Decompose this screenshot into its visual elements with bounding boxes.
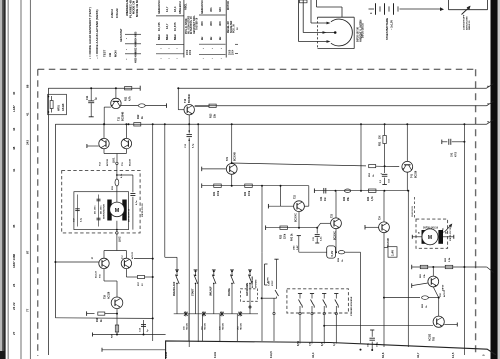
svg-text:AC122: AC122 bbox=[95, 270, 98, 278]
svg-text:TEST: TEST bbox=[103, 50, 107, 57]
svg-text:400: 400 bbox=[218, 21, 222, 26]
svg-text:MOTOR: MOTOR bbox=[227, 1, 230, 10]
svg-text:50F20-077.10: 50F20-077.10 bbox=[129, 208, 131, 222]
svg-text:50F20: 50F20 bbox=[442, 284, 444, 291]
svg-text:• = DIODE AA118 GESPERRT (TEST: • = DIODE AA118 GESPERRT (TEST) bbox=[88, 7, 92, 59]
svg-text:8,54: 8,54 bbox=[296, 340, 300, 346]
svg-text:10n: 10n bbox=[325, 196, 327, 201]
svg-text:SIEHE 91: SIEHE 91 bbox=[469, 20, 471, 30]
svg-text:LP61: LP61 bbox=[442, 227, 444, 233]
svg-text:450: 450 bbox=[200, 21, 204, 26]
svg-text:19: 19 bbox=[419, 232, 421, 234]
svg-text:50F20-107.00: 50F20-107.00 bbox=[450, 227, 452, 241]
svg-text:MHz: MHz bbox=[165, 34, 169, 40]
svg-text:STUETZBATTERIE: STUETZBATTERIE bbox=[386, 18, 389, 40]
svg-text:45: 45 bbox=[12, 224, 16, 228]
svg-text:BC204C: BC204C bbox=[334, 231, 337, 240]
svg-text:40: 40 bbox=[12, 91, 16, 95]
svg-text:Hz: Hz bbox=[218, 36, 222, 40]
svg-text:TA6181: TA6181 bbox=[240, 322, 243, 330]
svg-text:23 22: 23 22 bbox=[12, 302, 16, 310]
svg-text:AC122: AC122 bbox=[131, 251, 134, 259]
svg-text:AUFNAHME: AUFNAHME bbox=[251, 275, 254, 288]
svg-text:0,4V: 0,4V bbox=[296, 245, 299, 250]
svg-text:T11: T11 bbox=[118, 116, 121, 121]
svg-text:L187: L187 bbox=[12, 105, 16, 112]
svg-text:333: 333 bbox=[218, 7, 222, 12]
svg-text:•: • bbox=[169, 47, 170, 51]
svg-text:50F20-109.10: 50F20-109.10 bbox=[362, 22, 365, 38]
svg-text:M: M bbox=[428, 235, 432, 241]
svg-text:100k: 100k bbox=[218, 190, 220, 196]
svg-text:WL-SCHALTERS: WL-SCHALTERS bbox=[188, 15, 191, 34]
svg-text:REGEL-SP.: REGEL-SP. bbox=[228, 21, 230, 33]
svg-text:•: • bbox=[177, 47, 178, 51]
svg-text:-: - bbox=[221, 56, 222, 60]
svg-text:BC204C: BC204C bbox=[295, 213, 298, 222]
svg-text:MODE CH MON: MODE CH MON bbox=[135, 0, 139, 17]
svg-text:L41: L41 bbox=[313, 305, 316, 308]
svg-text:43: 43 bbox=[12, 127, 16, 131]
svg-text:CH: CH bbox=[108, 53, 112, 57]
svg-text:TASTER 08: TASTER 08 bbox=[195, 17, 198, 30]
svg-text:∨: ∨ bbox=[91, 256, 93, 260]
svg-text:SERVOMOTOR: SERVOMOTOR bbox=[104, 204, 106, 219]
svg-text:MHz: MHz bbox=[173, 34, 177, 40]
svg-text:+: + bbox=[370, 12, 372, 16]
svg-text:10,875: 10,875 bbox=[173, 22, 177, 31]
svg-text:114,5: 114,5 bbox=[269, 351, 273, 358]
svg-text:14,7: 14,7 bbox=[165, 6, 169, 12]
svg-text:18: 18 bbox=[446, 232, 448, 234]
svg-text:10,725: 10,725 bbox=[157, 22, 161, 31]
svg-text:R12: R12 bbox=[137, 114, 140, 119]
svg-text:-: - bbox=[160, 56, 161, 60]
svg-text:BC238: BC238 bbox=[107, 158, 109, 166]
svg-text:4004 4005: 4004 4005 bbox=[135, 31, 138, 43]
svg-text:2xNiCd: 2xNiCd bbox=[110, 9, 114, 18]
svg-text:-: - bbox=[168, 56, 169, 60]
svg-text:-: - bbox=[126, 47, 127, 51]
svg-text:BC238: BC238 bbox=[130, 158, 132, 166]
svg-text:•: • bbox=[203, 47, 204, 51]
svg-text:C41: C41 bbox=[451, 152, 454, 157]
svg-text:GERAUSCH: GERAUSCH bbox=[157, 0, 161, 14]
svg-text:100k: 100k bbox=[249, 190, 251, 196]
svg-text:1143 91.01: 1143 91.01 bbox=[411, 205, 414, 217]
svg-text:87: 87 bbox=[26, 250, 30, 254]
svg-text:ANSCHLUSS: ANSCHLUSS bbox=[465, 16, 468, 30]
svg-text:– 3x1,5V: – 3x1,5V bbox=[391, 20, 394, 30]
svg-text:R21: R21 bbox=[214, 191, 216, 196]
svg-text:77: 77 bbox=[26, 308, 30, 312]
svg-text:4,7k: 4,7k bbox=[129, 96, 132, 101]
svg-text:R13: R13 bbox=[210, 113, 213, 118]
svg-text:PAUSE: PAUSE bbox=[228, 288, 231, 296]
svg-text:C11: C11 bbox=[86, 95, 89, 100]
svg-text:ABGLEICH: ABGLEICH bbox=[179, 1, 182, 14]
svg-text:15k: 15k bbox=[214, 113, 217, 118]
svg-text:451: 451 bbox=[209, 7, 213, 12]
svg-text:ABGL: ABGL bbox=[185, 3, 188, 10]
svg-text:1143: 1143 bbox=[164, 351, 168, 358]
svg-text:•: • bbox=[221, 47, 222, 51]
svg-text:T12: T12 bbox=[184, 98, 187, 103]
svg-text:4,7n: 4,7n bbox=[135, 200, 138, 205]
svg-text:•: • bbox=[126, 37, 127, 41]
svg-text:BC204C: BC204C bbox=[188, 94, 191, 103]
svg-text:STOP: STOP bbox=[272, 280, 274, 286]
svg-text:TA6181: TA6181 bbox=[203, 322, 206, 330]
svg-text:4,7μ: 4,7μ bbox=[192, 143, 195, 148]
svg-text:•: • bbox=[212, 47, 213, 51]
svg-text:-: - bbox=[203, 56, 204, 60]
svg-text:50F20-101.00: 50F20-101.00 bbox=[142, 203, 144, 217]
svg-text:SPERRE: SPERRE bbox=[255, 279, 257, 288]
svg-text:41: 41 bbox=[12, 168, 16, 172]
svg-text:GETASTET: GETASTET bbox=[119, 28, 123, 42]
svg-text:2004: 2004 bbox=[232, 49, 235, 55]
svg-text:1141: 1141 bbox=[213, 351, 217, 358]
svg-text:R11: R11 bbox=[125, 96, 128, 101]
svg-text:0,4V: 0,4V bbox=[330, 251, 334, 257]
svg-text:4700: 4700 bbox=[455, 151, 458, 157]
svg-text:BC204B: BC204B bbox=[122, 112, 125, 121]
svg-text:100μ: 100μ bbox=[377, 341, 379, 347]
svg-text:AC152: AC152 bbox=[429, 333, 432, 341]
svg-text:•: • bbox=[126, 57, 127, 61]
svg-text:AC128: AC128 bbox=[108, 291, 111, 299]
svg-text:-: - bbox=[212, 56, 213, 60]
svg-text:L41: L41 bbox=[337, 305, 340, 308]
svg-text:BC204B: BC204B bbox=[234, 152, 237, 161]
svg-text:68: 68 bbox=[26, 84, 30, 88]
svg-text:R51: R51 bbox=[380, 141, 382, 146]
svg-text:18,4: 18,4 bbox=[173, 6, 177, 12]
svg-text:STEUER-SCHIENE: STEUER-SCHIENE bbox=[351, 296, 353, 316]
svg-text:TA6181: TA6181 bbox=[185, 322, 188, 330]
svg-text:R23: R23 bbox=[281, 234, 283, 239]
svg-text:1,4V: 1,4V bbox=[391, 250, 395, 256]
svg-text:2,2n: 2,2n bbox=[321, 236, 323, 241]
svg-text:MHz: MHz bbox=[157, 34, 161, 40]
svg-text:MON: MON bbox=[114, 50, 118, 57]
svg-text:Hz: Hz bbox=[209, 36, 213, 40]
svg-text:461 100n: 461 100n bbox=[94, 205, 97, 214]
svg-text:450: 450 bbox=[209, 21, 213, 26]
svg-text:2003: 2003 bbox=[187, 49, 189, 55]
svg-text:44,7: 44,7 bbox=[416, 352, 420, 358]
svg-text:-: - bbox=[176, 56, 177, 60]
svg-text:– = DIODE AA118 LEITEND (MESS): – = DIODE AA118 LEITEND (MESS) bbox=[95, 10, 99, 59]
svg-text:4,7k: 4,7k bbox=[371, 196, 374, 201]
svg-text:64,6: 64,6 bbox=[381, 352, 385, 358]
svg-text:120k: 120k bbox=[285, 233, 287, 239]
svg-text:+: + bbox=[380, 172, 382, 176]
svg-text:IN TESTPOS. 08: IN TESTPOS. 08 bbox=[191, 16, 193, 34]
svg-text:13,7: 13,7 bbox=[165, 23, 169, 29]
svg-text:HF01: HF01 bbox=[58, 104, 61, 111]
svg-text:R22: R22 bbox=[245, 191, 247, 196]
svg-text:UMLAUF: UMLAUF bbox=[210, 286, 213, 296]
svg-text:TA6181: TA6181 bbox=[221, 322, 224, 330]
svg-text:C31: C31 bbox=[321, 196, 323, 201]
svg-text:LM 2: LM 2 bbox=[119, 236, 122, 242]
svg-text:14,5: 14,5 bbox=[451, 352, 455, 358]
svg-text:AA118: AA118 bbox=[62, 103, 65, 111]
svg-text:1487 1486: 1487 1486 bbox=[12, 253, 16, 268]
svg-text:243: 243 bbox=[26, 140, 30, 145]
svg-text:LM 1: LM 1 bbox=[113, 157, 116, 163]
svg-text:SCHALTER: SCHALTER bbox=[230, 20, 233, 33]
svg-text:•: • bbox=[161, 47, 162, 51]
svg-text:L41: L41 bbox=[325, 305, 328, 308]
svg-text:2002: 2002 bbox=[190, 49, 192, 55]
svg-text:M: M bbox=[115, 208, 120, 214]
svg-text:R33: R33 bbox=[368, 196, 370, 201]
svg-text:2005: 2005 bbox=[229, 49, 231, 55]
svg-text:L41: L41 bbox=[301, 305, 304, 308]
svg-text:LOESCHKOPF: LOESCHKOPF bbox=[464, 14, 466, 30]
svg-text:100mAh: 100mAh bbox=[115, 7, 119, 18]
svg-text:4002 4003: 4002 4003 bbox=[135, 41, 138, 53]
svg-text:481 100n: 481 100n bbox=[100, 205, 103, 214]
svg-text:48: 48 bbox=[12, 146, 16, 150]
svg-text:RUECKLAUF: RUECKLAUF bbox=[173, 281, 176, 296]
svg-text:44,4: 44,4 bbox=[311, 352, 315, 358]
svg-text:BC204B: BC204B bbox=[387, 238, 390, 247]
svg-text:R32: R32 bbox=[344, 196, 346, 201]
svg-text:24: 24 bbox=[12, 283, 16, 287]
svg-text:START: START bbox=[191, 288, 194, 296]
svg-text:27: 27 bbox=[12, 331, 16, 335]
svg-text:POS. 08: POS. 08 bbox=[234, 24, 236, 33]
svg-text:41: 41 bbox=[26, 112, 30, 116]
svg-text:GERAUSCH: GERAUSCH bbox=[200, 0, 204, 14]
svg-text:4000 4001: 4000 4001 bbox=[135, 51, 138, 63]
svg-text:BC238: BC238 bbox=[416, 170, 418, 178]
svg-text:POS. D. SPUR-: POS. D. SPUR- bbox=[186, 18, 188, 34]
svg-text:R42 1k: R42 1k bbox=[291, 233, 294, 241]
svg-text:Hz: Hz bbox=[200, 36, 204, 40]
